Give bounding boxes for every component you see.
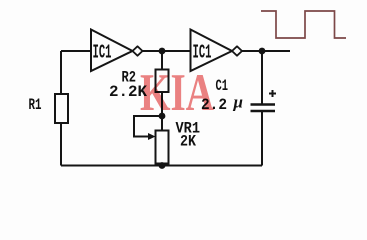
svg-text:C1: C1 <box>216 77 229 95</box>
wire cap top <box>261 51 263 104</box>
wire tri1 out to tri2 in <box>143 50 191 52</box>
svg-text:IC1: IC1 <box>193 42 212 64</box>
wire bottom rail <box>61 165 262 167</box>
node junction dot bottom rail <box>159 162 166 169</box>
wire cap bottom <box>261 111 263 166</box>
wire R2 top <box>161 51 163 70</box>
wire VR1 wiper loop <box>134 116 162 137</box>
svg-text:R1: R1 <box>29 96 42 114</box>
polarity plus sign <box>269 90 276 97</box>
svg-text:μ: μ <box>233 93 243 112</box>
svg-text:2K: 2K <box>180 133 196 151</box>
node junction dot tri1 output <box>159 48 166 55</box>
op-amp U2 inverter IC1 second <box>191 30 243 72</box>
resistor R2 <box>156 70 169 93</box>
svg-text:IC1: IC1 <box>93 42 112 64</box>
square wave output symbol <box>261 11 346 38</box>
wire left vertical lower <box>60 123 62 166</box>
op-amp U1 inverter IC1 first <box>91 30 143 72</box>
wire feedback top <box>61 50 91 52</box>
svg-text:KIA: KIA <box>140 64 214 122</box>
arrowhead wiper <box>148 133 156 140</box>
wire tri2 out stub <box>242 50 290 52</box>
wire left vertical upper <box>60 51 62 94</box>
node junction dot tri2 output <box>259 48 266 55</box>
resistor R1 <box>55 94 68 123</box>
capacitor C1 <box>251 105 276 112</box>
node junction dot R2-VR1 <box>159 113 166 120</box>
potentiometer VR1 <box>156 131 169 164</box>
wire VR1 bottom <box>161 164 163 166</box>
wire R2 bottom to VR1 top <box>161 92 163 131</box>
